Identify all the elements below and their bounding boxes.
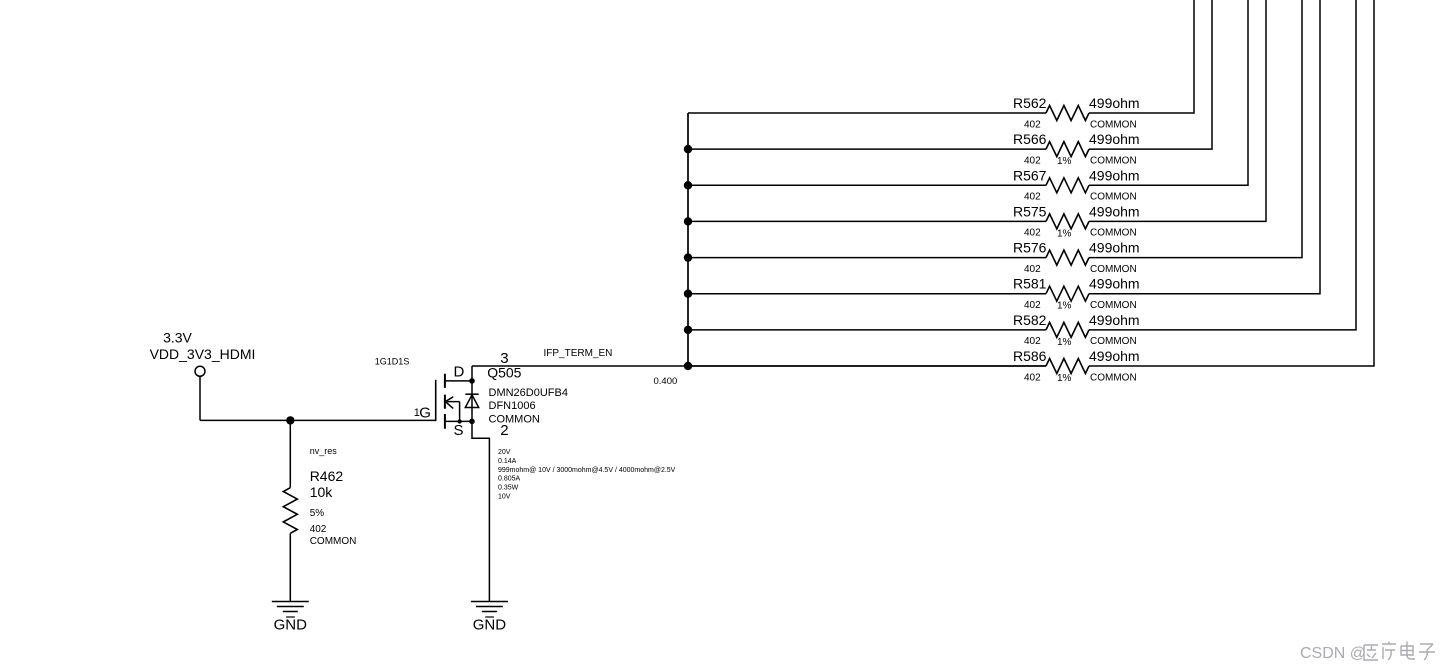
svg-text:1%: 1% bbox=[1057, 301, 1072, 312]
svg-text:1%: 1% bbox=[1057, 337, 1072, 348]
svg-text:R576: R576 bbox=[1013, 240, 1047, 256]
svg-text:5%: 5% bbox=[310, 508, 325, 519]
svg-text:COMMON: COMMON bbox=[1090, 300, 1137, 311]
ground GND (left) bbox=[272, 602, 309, 634]
svg-text:R582: R582 bbox=[1013, 312, 1047, 328]
resistor R575 499ohm bbox=[1013, 203, 1140, 239]
svg-text:DMN26D0UFB4: DMN26D0UFB4 bbox=[489, 387, 568, 399]
wire gate net horizontal bbox=[200, 419, 436, 421]
resistor R562 499ohm bbox=[1013, 95, 1140, 130]
svg-text:10k: 10k bbox=[310, 484, 334, 500]
junction node bus y=366 bbox=[684, 362, 692, 370]
svg-text:1%: 1% bbox=[1057, 228, 1072, 239]
vertical bus wire bbox=[687, 113, 689, 366]
svg-text:499ohm: 499ohm bbox=[1089, 348, 1140, 364]
resistor R586 499ohm bbox=[1013, 348, 1140, 384]
svg-text:1G1D1S: 1G1D1S bbox=[375, 357, 410, 367]
svg-text:D: D bbox=[454, 363, 465, 380]
svg-text:402: 402 bbox=[1024, 336, 1041, 347]
wire source to ground bbox=[472, 421, 489, 601]
svg-text:Q505: Q505 bbox=[487, 365, 521, 381]
resistor R567 499ohm bbox=[1013, 167, 1140, 202]
svg-text:COMMON: COMMON bbox=[310, 536, 357, 547]
wire bus to R567 bbox=[688, 184, 1046, 186]
svg-text:R562: R562 bbox=[1013, 95, 1047, 111]
svg-text:402: 402 bbox=[1024, 155, 1041, 166]
ground GND (right) bbox=[471, 602, 508, 634]
svg-text:499ohm: 499ohm bbox=[1089, 276, 1140, 292]
wire R567 to top edge bbox=[1089, 0, 1248, 185]
svg-text:0.35W: 0.35W bbox=[498, 485, 519, 492]
svg-text:0.14A: 0.14A bbox=[498, 458, 517, 465]
junction node bus y=221 bbox=[684, 217, 692, 225]
wire R562 to top edge bbox=[1089, 0, 1194, 113]
svg-text:499ohm: 499ohm bbox=[1089, 203, 1140, 219]
junction node bus y=185 bbox=[684, 181, 692, 189]
svg-text:402: 402 bbox=[1024, 264, 1041, 275]
wire bus to R581 bbox=[688, 293, 1046, 295]
svg-text:999mohm@ 10V / 3000mohm@4.5V /: 999mohm@ 10V / 3000mohm@4.5V / 4000mohm@… bbox=[498, 467, 676, 474]
svg-text:GND: GND bbox=[473, 617, 507, 634]
svg-text:COMMON: COMMON bbox=[1090, 155, 1137, 166]
svg-text:R586: R586 bbox=[1013, 348, 1047, 364]
svg-text:3.3V: 3.3V bbox=[163, 330, 192, 346]
svg-text:R566: R566 bbox=[1013, 131, 1047, 147]
svg-text:499ohm: 499ohm bbox=[1089, 131, 1140, 147]
resistor R566 499ohm bbox=[1013, 131, 1140, 167]
svg-text:402: 402 bbox=[1024, 300, 1041, 311]
junction node bus y=149 bbox=[684, 145, 692, 153]
wire bus to R576 bbox=[688, 257, 1046, 259]
resistor R582 499ohm bbox=[1013, 312, 1140, 348]
wire R462 to ground bbox=[289, 533, 291, 601]
wire R586 to top edge bbox=[1089, 0, 1374, 366]
svg-text:402: 402 bbox=[1024, 228, 1041, 239]
svg-text:R462: R462 bbox=[310, 468, 344, 484]
svg-text:10V: 10V bbox=[498, 494, 511, 501]
svg-text:1%: 1% bbox=[1057, 373, 1072, 384]
wire junction to R462 bbox=[289, 420, 291, 487]
net IFP_TERM_EN main wire bbox=[472, 365, 1046, 367]
svg-text:COMMON: COMMON bbox=[1090, 119, 1137, 130]
wire R566 to top edge bbox=[1089, 0, 1212, 149]
svg-text:DFN1006: DFN1006 bbox=[489, 400, 536, 412]
watermark CSDN @medical electronics bbox=[1300, 642, 1435, 663]
svg-text:GND: GND bbox=[274, 617, 308, 634]
svg-text:20V: 20V bbox=[498, 449, 511, 456]
svg-text:499ohm: 499ohm bbox=[1089, 167, 1140, 183]
svg-text:COMMON: COMMON bbox=[1090, 372, 1137, 383]
junction node bus y=258 bbox=[684, 253, 692, 261]
wire bus to R575 bbox=[688, 220, 1046, 222]
wire bus to R586 bbox=[688, 365, 1046, 367]
junction node on gate net bbox=[286, 416, 294, 424]
wire drain to net bbox=[471, 366, 473, 381]
svg-text:402: 402 bbox=[1024, 192, 1041, 203]
junction node bus y=330 bbox=[684, 326, 692, 334]
svg-text:R581: R581 bbox=[1013, 276, 1047, 292]
resistor R581 499ohm bbox=[1013, 276, 1140, 312]
svg-text:499ohm: 499ohm bbox=[1089, 240, 1140, 256]
power symbol 3.3V VDD_3V3_HDMI bbox=[150, 330, 256, 377]
wire R576 to top edge bbox=[1089, 0, 1302, 258]
svg-text:COMMON: COMMON bbox=[489, 414, 540, 426]
svg-text:S: S bbox=[454, 422, 464, 439]
wire R582 to top edge bbox=[1089, 0, 1356, 330]
wire bus to R566 bbox=[688, 148, 1046, 150]
svg-text:402: 402 bbox=[310, 524, 327, 535]
svg-text:COMMON: COMMON bbox=[1090, 264, 1137, 275]
svg-text:R567: R567 bbox=[1013, 167, 1047, 183]
svg-text:0.400: 0.400 bbox=[654, 376, 678, 387]
svg-text:499ohm: 499ohm bbox=[1089, 312, 1140, 328]
svg-text:nv_res: nv_res bbox=[310, 446, 338, 456]
svg-text:1%: 1% bbox=[1057, 156, 1072, 167]
svg-text:402: 402 bbox=[1024, 119, 1041, 130]
svg-text:G: G bbox=[419, 404, 431, 421]
resistor R576 499ohm bbox=[1013, 240, 1140, 275]
svg-text:COMMON: COMMON bbox=[1090, 192, 1137, 203]
svg-text:COMMON: COMMON bbox=[1090, 228, 1137, 239]
wire from power terminal down bbox=[199, 376, 201, 420]
svg-text:VDD_3V3_HDMI: VDD_3V3_HDMI bbox=[150, 346, 256, 362]
wire R581 to top edge bbox=[1089, 0, 1320, 294]
transistor Q505 DMN26D0UFB4 bbox=[375, 350, 676, 501]
svg-text:CSDN @: CSDN @ bbox=[1300, 645, 1366, 662]
svg-text:COMMON: COMMON bbox=[1090, 336, 1137, 347]
wire bus to R582 bbox=[688, 329, 1046, 331]
svg-text:R575: R575 bbox=[1013, 203, 1047, 219]
svg-text:0.805A: 0.805A bbox=[498, 476, 521, 483]
wire R575 to top edge bbox=[1089, 0, 1266, 221]
resistor R462 10k bbox=[283, 446, 356, 547]
svg-text:402: 402 bbox=[1024, 372, 1041, 383]
junction node bus y=294 bbox=[684, 290, 692, 298]
wire bus to R562 bbox=[688, 112, 1046, 114]
svg-text:IFP_TERM_EN: IFP_TERM_EN bbox=[544, 348, 613, 359]
Q505 spec text block bbox=[498, 449, 676, 501]
svg-text:499ohm: 499ohm bbox=[1089, 95, 1140, 111]
